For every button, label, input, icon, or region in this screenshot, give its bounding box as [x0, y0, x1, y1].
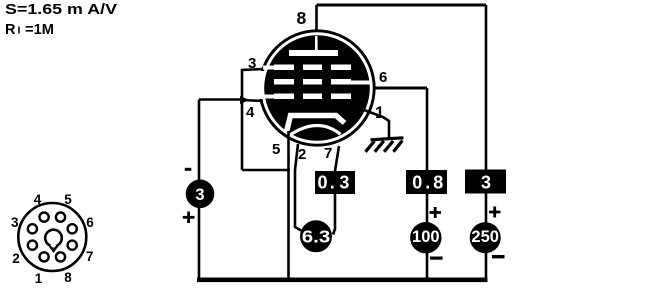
socket pin holes [28, 213, 77, 262]
svg-text:7: 7 [86, 249, 94, 264]
svg-text:0.3: 0.3 [318, 173, 350, 193]
svg-text:4: 4 [34, 192, 42, 207]
svg-text:4: 4 [246, 104, 255, 121]
svg-text:R: R [5, 22, 16, 38]
wire pin 8 to top rail [315, 5, 318, 30]
svg-text:5: 5 [64, 192, 72, 207]
wire screen supply vertical [426, 88, 429, 281]
svg-text:6.3: 6.3 [302, 227, 331, 247]
cathode bar [287, 116, 345, 133]
heater filament arch [289, 125, 341, 135]
svg-text:6: 6 [379, 69, 387, 86]
wire top rail to anode supply [317, 4, 487, 7]
anode (plate) bar [289, 50, 338, 56]
minus sign of bias battery [185, 168, 192, 171]
plus sign of anode supply [489, 207, 501, 218]
current label 0.8 mA (screen) [406, 170, 447, 194]
svg-text:I: I [18, 25, 21, 37]
minus sign of anode supply [492, 255, 505, 258]
svg-text:7: 7 [324, 145, 332, 162]
tube U1 envelope outer ring [260, 31, 374, 145]
svg-text:2: 2 [298, 146, 306, 163]
grid g2 row (dashed) [274, 79, 294, 85]
grid g3 lead to pin 3 (inside tube) [263, 66, 276, 70]
ground symbol [366, 138, 404, 152]
svg-text:5: 5 [272, 141, 280, 158]
wire pin 5 (cathode) down to bottom rail [287, 131, 290, 280]
grid g1 lead to pin 4 (inside tube) [263, 95, 276, 99]
tube U1 inner black disc [264, 35, 370, 141]
svg-text:100: 100 [412, 228, 440, 246]
wire right vertical (anode supply) [485, 5, 488, 281]
bottom rail wire [197, 278, 488, 283]
wire pin 4 lead [242, 100, 263, 101]
svg-text:6: 6 [86, 215, 94, 230]
notch in envelope between pin 3 and pin 4 leads [251, 71, 264, 99]
wire pin 1 to ground [360, 109, 389, 140]
current label 0.3 A (heater) [315, 171, 355, 194]
svg-text:8: 8 [64, 270, 72, 285]
grid g3 row (dashed) [274, 65, 294, 71]
svg-text:250: 250 [471, 228, 499, 246]
svg-text:2: 2 [12, 251, 20, 266]
current label 3 mA (anode) [465, 170, 506, 194]
junction at grid node [240, 96, 250, 104]
wire pin 7 (heater) down through current label [333, 146, 339, 235]
source 100 V screen supply [410, 222, 441, 253]
svg-text:3: 3 [481, 173, 491, 193]
svg-text:S=1.65 m A/V: S=1.65 m A/V [5, 2, 117, 18]
plus sign of bias battery [183, 212, 195, 224]
svg-text:1: 1 [375, 104, 384, 122]
grid g1 row (dashed) [274, 94, 294, 100]
anode lead to pin 8 (inside tube) [315, 36, 318, 52]
wire pin 2 (heater) down to heater supply [295, 144, 301, 231]
svg-text:8: 8 [297, 8, 307, 28]
source 250 V anode supply [470, 222, 501, 253]
wire grid bias horizontal [199, 98, 240, 101]
minus sign of screen supply [430, 257, 443, 260]
socket pin numbers [11, 192, 94, 286]
wire pin 6 horizontal [374, 87, 427, 90]
svg-text:0.8: 0.8 [412, 173, 446, 193]
socket center spigot with key [45, 230, 62, 247]
svg-text:=1M: =1M [25, 22, 54, 38]
wire pin 3 lead [242, 69, 263, 170]
wire grid node down to cathode line [242, 169, 290, 172]
svg-text:3: 3 [195, 186, 204, 204]
wire grid bias vertical [198, 100, 201, 281]
source 6.3 V heater supply [300, 220, 332, 252]
battery/source 3 V grid bias [186, 180, 215, 209]
plus sign of screen supply [430, 207, 442, 218]
svg-text:1: 1 [35, 271, 43, 286]
grid g2 lead to pin 6 (inside tube) [349, 81, 370, 85]
socket base diagram outline [18, 203, 86, 271]
svg-text:3: 3 [11, 215, 19, 230]
